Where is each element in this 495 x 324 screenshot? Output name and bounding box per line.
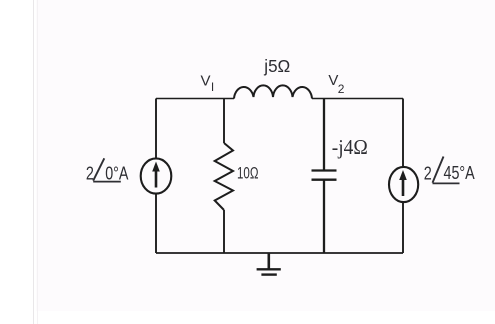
svg-text:2: 2 <box>338 82 345 96</box>
svg-text:45°A: 45°A <box>444 163 475 183</box>
svg-text:-j4Ω: -j4Ω <box>332 135 368 159</box>
svg-text:2: 2 <box>86 163 94 183</box>
svg-text:V: V <box>201 73 211 90</box>
svg-text:j5Ω: j5Ω <box>263 56 290 76</box>
svg-text:10Ω: 10Ω <box>237 165 259 183</box>
svg-text:0°A: 0°A <box>105 163 128 183</box>
svg-text:2: 2 <box>424 164 432 184</box>
svg-text:I: I <box>211 80 214 94</box>
